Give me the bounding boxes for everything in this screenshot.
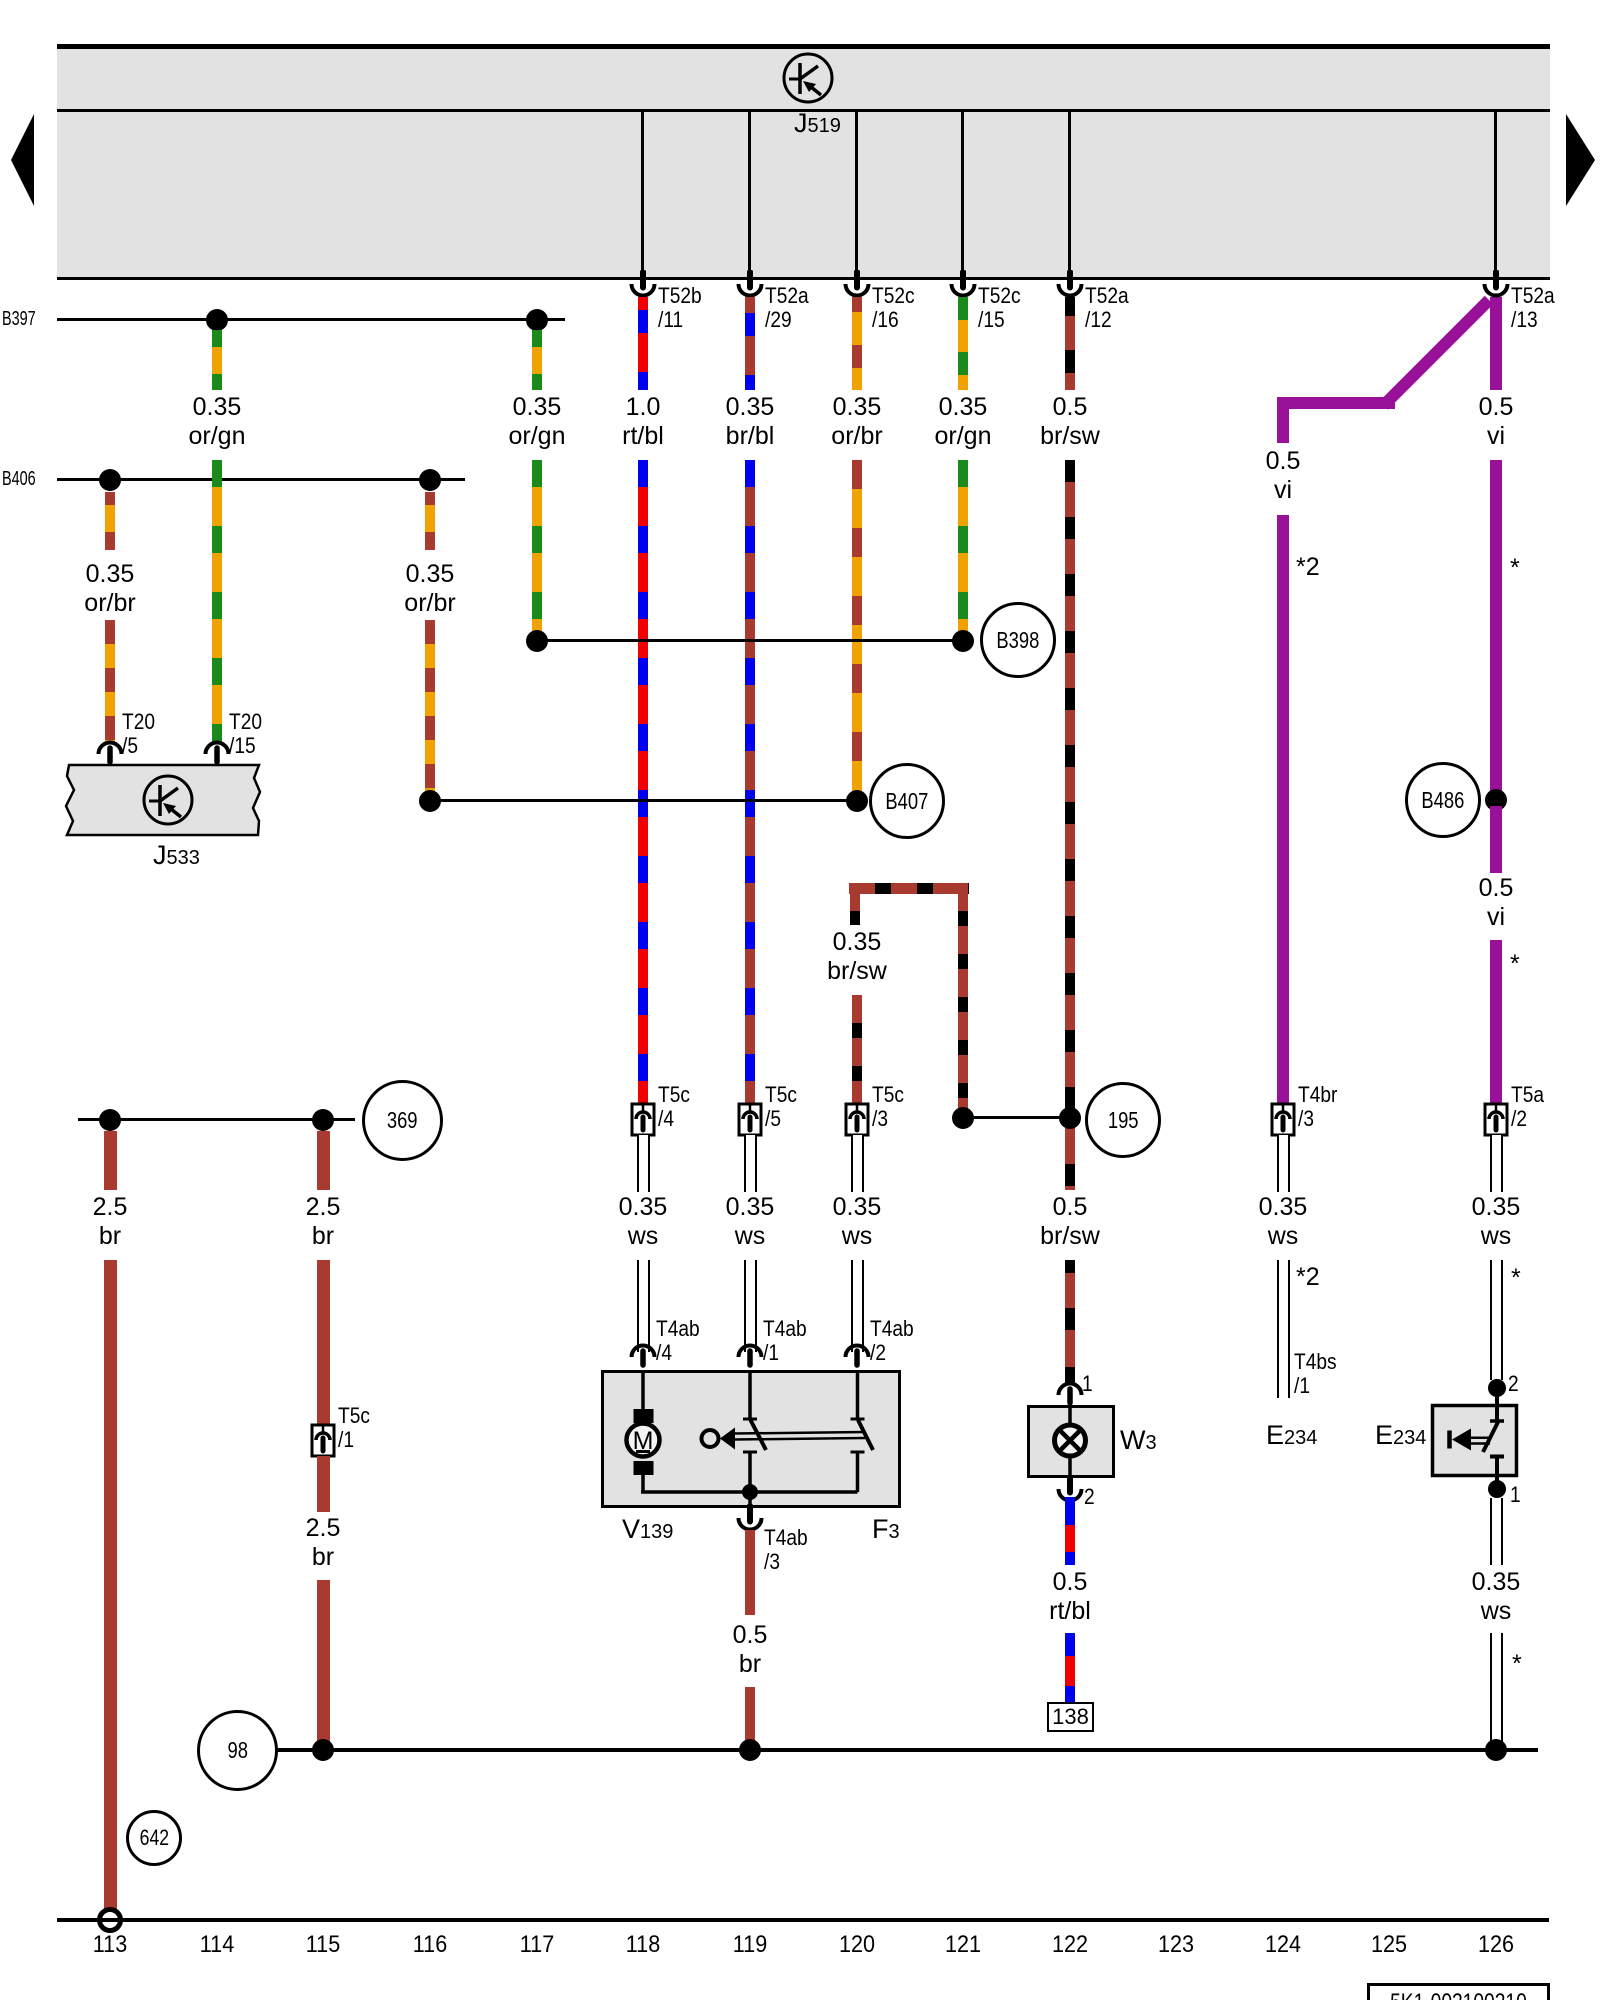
junction 195 left — [952, 1107, 974, 1129]
connector T52c/16 — [842, 270, 872, 300]
label 0.5 br/sw — [990, 393, 1150, 451]
junction B407 right — [846, 790, 868, 812]
wire rt/bl upper — [638, 297, 648, 390]
label 1.0 rt/bl — [563, 393, 723, 451]
wire or/gn stub from B397 right — [532, 330, 542, 390]
node 195 line — [963, 1116, 1070, 1119]
connector T20/5 — [95, 740, 125, 770]
connector T52a/13 — [1481, 270, 1511, 300]
wire br/sw upper — [1065, 297, 1075, 390]
track number 114 — [177, 1931, 258, 1959]
mark *2 — [1296, 553, 1320, 582]
junction 369 left — [99, 1109, 121, 1131]
node B398 circle — [980, 602, 1056, 678]
connector 1 on W3 — [1055, 1381, 1085, 1411]
label 0.5 br — [670, 1621, 830, 1679]
track number 125 — [1349, 1931, 1430, 1959]
node B398 line — [537, 639, 963, 642]
label 0.35 or/br — [777, 393, 937, 451]
bottom frame line — [57, 1918, 1549, 1922]
label 0.35 or/gn — [137, 393, 297, 451]
wire ws below T5c/5 — [744, 1135, 757, 1192]
junction B407 left — [419, 790, 441, 812]
wire br/bl long — [745, 460, 755, 1104]
wire vi upper right — [1490, 297, 1502, 390]
label 0.35 or/br — [30, 560, 190, 618]
mark * — [1510, 950, 1520, 979]
connector T5c/1 — [310, 1423, 336, 1458]
connector T5c/4 — [630, 1102, 656, 1137]
wire br/sw jog horizontal — [849, 883, 969, 894]
label 0.35 or/br — [350, 560, 510, 618]
track number 118 — [603, 1931, 684, 1959]
mark * — [1512, 1650, 1522, 1679]
mark * — [1511, 1264, 1521, 1293]
label 0.35 ws — [1203, 1193, 1363, 1251]
label 2.5 br — [30, 1193, 190, 1251]
junction B398 right — [952, 630, 974, 652]
wire stub in band to T52c/15 — [961, 112, 964, 277]
label V139 — [622, 1514, 673, 1545]
label 0.5 vi left — [1203, 447, 1363, 505]
part number box — [1367, 1983, 1550, 2000]
connector T20/15 — [202, 740, 232, 770]
node 195 circle — [1085, 1082, 1161, 1158]
wire vi long left — [1277, 515, 1289, 1104]
wire stub in band to T52c/16 — [855, 112, 858, 277]
label F3 — [872, 1514, 900, 1545]
control unit symbol (J519) — [778, 48, 838, 108]
wire ws to T4ab/2 — [851, 1260, 864, 1352]
wire stub in band to T52a/12 — [1068, 112, 1071, 277]
wire or/gn to B398 dot — [958, 460, 968, 641]
wire ws to T4ab/1 — [744, 1260, 757, 1352]
connector T52b/11 — [628, 270, 658, 300]
wire br 2.5 to node 98 — [317, 1580, 330, 1750]
track number 124 — [1243, 1931, 1324, 1959]
junction B486 — [1485, 789, 1507, 811]
wire ws below T4br/3 — [1277, 1135, 1290, 1192]
wire rt/bl long — [638, 460, 648, 1104]
hidden symbol defs — [0, 0, 3, 3]
wire or/br upper — [852, 297, 862, 390]
label 0.35 or/gn — [883, 393, 1043, 451]
node B407 circle — [869, 763, 945, 839]
label 2.5 br — [243, 1193, 403, 1251]
ground ring 642 — [97, 1907, 123, 1933]
connector T5a/2 — [1483, 1102, 1509, 1137]
left arrow — [10, 112, 36, 208]
terminal 138 box — [1047, 1702, 1094, 1732]
track number 115 — [283, 1931, 364, 1959]
connector T4ab/1 — [735, 1343, 765, 1373]
band inner line — [57, 109, 1550, 112]
wire stub in band to T52b/11 — [641, 112, 644, 277]
mark * — [1510, 554, 1520, 583]
connector T52a/12 — [1055, 270, 1085, 300]
wire br 2.5 left long — [104, 1260, 117, 1912]
junction B398 left — [526, 630, 548, 652]
connector T4br/3 — [1270, 1102, 1296, 1137]
node B397 line — [57, 318, 565, 321]
wire or/gn to T20/15 — [212, 460, 222, 743]
wire or/br stub from B406 — [105, 492, 115, 550]
wire rt/bl to 138 — [1065, 1633, 1075, 1702]
wire rt/bl below W3 — [1065, 1497, 1075, 1565]
node 642 circle — [126, 1810, 182, 1866]
wire or/br to T20/5 — [105, 620, 115, 743]
pin 1 dot — [1488, 1480, 1506, 1498]
wire or/br stub from B406 right — [425, 492, 435, 550]
label 0.35 ws — [563, 1193, 723, 1251]
connector T4ab/2 — [842, 1343, 872, 1373]
connector T5c/5 — [737, 1102, 763, 1137]
connector T4bs/1 labels — [1294, 1350, 1337, 1398]
wire stub in band to T52a/29 — [748, 112, 751, 277]
connector T4ab/3 — [735, 1504, 765, 1534]
node 98 line — [277, 1748, 1538, 1752]
wire or/gn to B398 — [532, 460, 542, 641]
wire br/sw to T5c/3 — [852, 995, 862, 1104]
track number 119 — [710, 1931, 791, 1959]
wire br/sw long — [1065, 460, 1075, 1190]
junction 98 at track 119 — [739, 1739, 761, 1761]
junction B397 left — [206, 309, 228, 331]
wire ws below T5a/2 — [1490, 1135, 1503, 1192]
label 0.5 vi — [1416, 874, 1576, 932]
wire vi right to B486 — [1490, 460, 1502, 794]
junction 195 right — [1059, 1107, 1081, 1129]
track number 113 — [70, 1931, 151, 1959]
connector T52a/29 — [735, 270, 765, 300]
label E234 right — [1375, 1420, 1426, 1451]
track number 122 — [1030, 1931, 1111, 1959]
label 2.5 br — [243, 1514, 403, 1572]
wire or/br to B407 — [425, 620, 435, 801]
wire br/sw to W3 — [1065, 1260, 1075, 1383]
track number 116 — [390, 1931, 471, 1959]
wire br/sw below 195 — [1065, 1129, 1075, 1190]
node 98 circle — [197, 1710, 278, 1791]
wire vi diagonal branch — [1379, 296, 1493, 410]
track number 121 — [923, 1931, 1004, 1959]
node 369 circle — [362, 1080, 443, 1161]
wire vi below B486 — [1490, 806, 1502, 873]
wire br/sw jog left stub — [850, 883, 860, 925]
node B406 line — [57, 478, 465, 481]
wire or/gn stub from B397 — [212, 330, 222, 390]
label E234 left — [1266, 1420, 1317, 1451]
label 0.35 br/bl — [670, 393, 830, 451]
wire br/bl upper — [745, 297, 755, 390]
wire stub in band to T52a/13 — [1494, 112, 1497, 277]
label 0.5 rt/bl — [990, 1568, 1150, 1626]
track number 117 — [497, 1931, 578, 1959]
label 0.35 ws — [1416, 1193, 1576, 1251]
wire ws to E234 pin2 — [1490, 1260, 1503, 1380]
right arrow — [1564, 112, 1598, 208]
node B486 circle — [1405, 762, 1481, 838]
connector 2 on W3 — [1055, 1475, 1085, 1505]
label 0.35 ws — [1416, 1568, 1576, 1626]
wire ws below E234 — [1490, 1498, 1503, 1565]
junction B397 right — [526, 309, 548, 331]
control unit symbol (J533) — [138, 770, 198, 830]
wire vi to T5a — [1490, 940, 1502, 1104]
node 369 line — [78, 1118, 355, 1121]
junction B406 left — [99, 469, 121, 491]
label J519 — [794, 108, 841, 139]
track number 123 — [1136, 1931, 1217, 1959]
connector T52c/15 — [948, 270, 978, 300]
track number 120 — [817, 1931, 898, 1959]
mark *2 — [1296, 1263, 1320, 1292]
wire br 0.5 below T4ab/3 — [745, 1530, 755, 1615]
bulb W3 box — [1024, 1402, 1116, 1480]
label J533 — [153, 840, 200, 871]
junction B406 right — [419, 469, 441, 491]
wire br 2.5 below T5c/1 — [317, 1456, 330, 1512]
label 0.35 br/sw — [777, 928, 937, 986]
label W3 — [1120, 1425, 1157, 1456]
switch box E234 — [1428, 1400, 1523, 1492]
junction 369 right — [312, 1109, 334, 1131]
label 0.35 or/gn — [457, 393, 617, 451]
wire ws below T5c/3 — [851, 1135, 864, 1192]
junction 98 at track 115 — [312, 1739, 334, 1761]
wire br/sw jog right vertical — [958, 883, 968, 1118]
wire ws to node 98 — [1490, 1633, 1503, 1750]
wire vi elbow horizontal — [1277, 397, 1395, 409]
node B407 line — [430, 799, 857, 802]
label 0.35 ws — [777, 1193, 937, 1251]
label 0.5 vi — [1416, 393, 1576, 451]
control unit J519 band — [57, 44, 1550, 280]
junction 98 at track 126 — [1485, 1739, 1507, 1761]
pin 2 dot — [1488, 1379, 1506, 1397]
wire ws below T5c/4 — [637, 1135, 650, 1192]
motor V139 and switch F3 box — [600, 1369, 910, 1511]
wire vi elbow down — [1277, 397, 1289, 443]
wire or/gn upper — [958, 297, 968, 390]
control unit J533 box — [58, 758, 268, 842]
track number 126 — [1456, 1931, 1537, 1959]
connector T4ab/4 — [628, 1343, 658, 1373]
wire or/br to B407 dot — [852, 460, 862, 801]
label 0.5 br/sw — [990, 1193, 1150, 1251]
wire ws to T4ab/4 — [637, 1260, 650, 1352]
wire br 0.5 to node 98 — [745, 1687, 755, 1750]
wire br 2.5 to T5c/1 — [317, 1260, 330, 1425]
connector T5c/3 — [844, 1102, 870, 1137]
wire br 2.5 left upper — [104, 1131, 117, 1190]
wire ws long left E234 — [1277, 1260, 1290, 1398]
wire br 2.5 mid upper — [317, 1131, 330, 1190]
label 0.35 ws — [670, 1193, 830, 1251]
